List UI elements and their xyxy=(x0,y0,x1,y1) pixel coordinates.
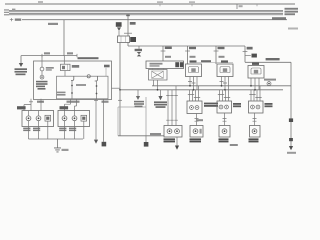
L1 bulb 1 xyxy=(26,116,31,121)
wire rear pins long c xyxy=(175,86,177,126)
wire label rear window feed xyxy=(266,58,280,60)
arrowhead harness ref xyxy=(136,96,140,100)
T1 pins down xyxy=(190,77,197,90)
wire label right BLK/YEL xyxy=(272,17,286,19)
lamp L1 circle xyxy=(40,67,44,71)
L2 bulb 1 dot xyxy=(64,117,66,119)
fuse F1 inner element xyxy=(121,37,126,43)
wire drop to front light left xyxy=(187,46,189,64)
midA pin ticks xyxy=(188,94,200,97)
connector C3 tick xyxy=(236,4,238,9)
arrow label row1 xyxy=(154,101,167,103)
wire dimmer to inner box xyxy=(64,71,66,77)
wire ground bus xyxy=(29,138,84,140)
wire relay out a xyxy=(153,80,155,86)
wire stub to connector xyxy=(145,136,147,142)
contact dot left 2 xyxy=(71,92,73,94)
rear1 label row2 xyxy=(164,141,176,143)
node dot T1 xyxy=(189,85,191,87)
rear light box 2 xyxy=(190,126,203,138)
midB pins up xyxy=(220,90,229,101)
node label left bus 1 xyxy=(4,9,9,10)
wire drop to hazard switch xyxy=(63,20,65,56)
front light L2 title xyxy=(60,106,69,109)
wire relay out b xyxy=(157,80,159,90)
relay pins top xyxy=(153,69,164,70)
inner label center xyxy=(76,84,86,86)
wire rect bottom to rear lights xyxy=(118,135,164,137)
T3 bulb xyxy=(254,70,258,74)
wire ground stem xyxy=(57,139,59,148)
node dot T2b xyxy=(224,89,226,91)
wire into switch xyxy=(41,56,43,68)
node dot T2 xyxy=(221,85,223,87)
pin label b xyxy=(67,101,80,103)
lamp L1 label row2 xyxy=(46,69,52,71)
wire into dimmer xyxy=(63,56,65,65)
arrowhead left feed xyxy=(19,63,23,67)
rear1 bulb 1 dot xyxy=(169,130,171,132)
wire drop to turn signal relay xyxy=(162,46,164,61)
front light L1 title xyxy=(17,106,26,109)
test point dot xyxy=(268,83,270,85)
dimmer inner mark xyxy=(62,66,65,69)
midA pins up xyxy=(190,86,199,101)
node label right bus row 1 xyxy=(285,8,299,10)
wire label at cross 42 xyxy=(44,52,50,54)
L2 label below 1b xyxy=(59,130,66,132)
connector C1 tick xyxy=(159,4,161,6)
harness ref label row3 xyxy=(135,106,143,108)
connector cross left drop xyxy=(185,50,190,52)
L1 label below 1b xyxy=(23,130,30,132)
wire bus H1 xyxy=(152,85,291,87)
contact dot right 1 xyxy=(96,85,98,87)
L2 bulb 1 xyxy=(62,116,67,121)
control unit pin cell 1 xyxy=(175,62,179,67)
rear1 bulb 1 xyxy=(167,129,172,134)
node dot relay-bus xyxy=(157,89,159,91)
arrow to page right xyxy=(289,146,293,150)
midC bulb 2 xyxy=(256,105,260,109)
midB pins down xyxy=(224,113,226,126)
relay box xyxy=(149,70,168,81)
L2 socket inner xyxy=(82,117,85,120)
wire switch pin to arrow xyxy=(95,99,97,140)
control unit label xyxy=(150,63,163,65)
midB down ticks xyxy=(223,119,227,122)
connector cross at 77 xyxy=(76,54,78,57)
switch position label xyxy=(104,65,110,68)
relay coil symbol xyxy=(116,22,122,27)
wire fuse output right xyxy=(128,43,245,47)
hazard label row 1 xyxy=(36,81,48,83)
connector C1 label xyxy=(157,1,163,2)
hazard label row 3 xyxy=(36,86,45,88)
midA down ticks xyxy=(195,119,199,122)
wire label left drop xyxy=(189,47,196,49)
T1 label above xyxy=(190,60,197,62)
node dot T1b xyxy=(193,89,195,91)
link line T1-T2 xyxy=(196,62,233,64)
arrow label row 3 xyxy=(16,74,26,76)
wire hazard feed line xyxy=(21,55,77,57)
wire down right side xyxy=(290,62,292,146)
node label right bus row 3 xyxy=(285,13,296,15)
wire color label on left drop xyxy=(190,56,196,58)
connector C3 label xyxy=(239,5,243,7)
arrow ref inside harness area xyxy=(137,90,139,96)
lamp L1 label xyxy=(46,67,54,69)
L2 bulb 2 xyxy=(72,116,77,121)
midA bulb 2 xyxy=(195,106,199,110)
contact dot left 1 xyxy=(71,85,73,87)
connector tick pin96 xyxy=(94,99,98,101)
wire pins to ground bus xyxy=(29,127,84,140)
connector cross right drop xyxy=(214,50,219,52)
L1 label below 2 xyxy=(33,128,40,130)
mid light box B xyxy=(217,101,232,113)
wire gauge label top xyxy=(38,1,43,3)
wire label right drop xyxy=(218,47,225,49)
wire label at cross 64 xyxy=(67,52,73,54)
node label left bus 3 xyxy=(4,14,9,15)
T2 bulb xyxy=(223,68,227,72)
rear1 label row1 xyxy=(164,138,176,140)
control unit label 2 xyxy=(150,65,160,67)
wire label leader xyxy=(105,68,107,76)
sideR bulb dot xyxy=(254,130,256,132)
L1 socket inner xyxy=(46,117,49,120)
control unit box xyxy=(146,61,184,69)
lamp L2 circle xyxy=(40,75,44,79)
arrow label row3 xyxy=(156,106,166,108)
midB bulb 2 xyxy=(225,105,229,109)
contact pole right xyxy=(96,81,98,99)
wire rear pins long b xyxy=(171,90,173,126)
wire pin 31 xyxy=(30,99,32,111)
L1 bulb 1 dot xyxy=(28,117,30,119)
sideR label row2 xyxy=(249,141,259,143)
mid light box A xyxy=(187,101,202,114)
T1 bulb xyxy=(191,68,195,72)
relay inner rect xyxy=(152,71,164,78)
rear1 bulb 2 xyxy=(175,129,180,134)
rear2 label row2 xyxy=(190,141,202,143)
connector C2 tick xyxy=(191,4,193,6)
condenser label xyxy=(135,49,142,51)
L1 socket box xyxy=(45,115,51,121)
hazard label row 4 xyxy=(38,88,46,90)
control unit pin cell 2 xyxy=(180,62,184,67)
connector tick pin41 xyxy=(39,101,43,103)
wire bus line 3 xyxy=(9,12,283,14)
T2 bulb housing xyxy=(220,67,230,73)
switch box title label xyxy=(78,57,99,59)
connector plug dark box xyxy=(252,54,257,58)
relay contacts X xyxy=(152,72,163,79)
harness ref label row2 xyxy=(134,103,144,105)
node label left bus 2 xyxy=(4,12,9,13)
wire switch out right xyxy=(112,87,121,89)
midC label right row2 xyxy=(265,105,273,107)
midC down ticks xyxy=(253,119,257,122)
wire color label on right drop xyxy=(219,56,225,58)
sideL label row1 xyxy=(219,138,229,140)
midA pins down xyxy=(196,114,198,126)
wire pin 41 xyxy=(40,99,42,111)
midC pin ticks xyxy=(249,94,261,97)
connector block hatched 2 xyxy=(144,142,149,147)
midC pins up xyxy=(251,86,260,101)
inner label row 1 xyxy=(57,92,66,94)
node dot fuse-bus xyxy=(119,89,121,91)
arrowhead relay ref xyxy=(158,96,162,100)
pin label c xyxy=(102,101,109,103)
node dot T3b xyxy=(254,89,256,91)
T3 pins down xyxy=(251,78,259,90)
fuse F1 box xyxy=(118,36,130,43)
connector cross rear drop xyxy=(243,51,248,53)
dash harness outline box xyxy=(118,107,146,136)
arrow feed from page left xyxy=(20,56,22,63)
wire bus line 4 xyxy=(9,14,283,16)
wire between lamps xyxy=(41,71,43,75)
rear2 bulb dot xyxy=(195,130,197,132)
wire top supply bus xyxy=(5,3,295,5)
sideR label row1 xyxy=(249,138,259,140)
wire label rear drop xyxy=(247,47,253,50)
midB label right row2 xyxy=(233,105,241,107)
rear2 bulb xyxy=(193,129,198,134)
T1 pin ticks xyxy=(188,82,196,83)
rear2 label above xyxy=(196,119,203,121)
wire label on relay drop xyxy=(165,47,172,49)
ground G401 label xyxy=(62,149,69,151)
L2 label below 2b xyxy=(69,130,76,132)
dimmer label xyxy=(72,65,79,68)
midC label right row1 xyxy=(265,103,273,105)
harness ref label row1 xyxy=(134,101,144,103)
arrow label right xyxy=(287,152,296,154)
L1 label below 1 xyxy=(23,128,30,130)
connector ticks rear pins xyxy=(166,94,178,96)
connector cross at 42 xyxy=(41,54,43,57)
connector tick on fuse wire xyxy=(118,99,122,101)
contact elbow left xyxy=(71,76,74,80)
sideR bulb xyxy=(252,129,257,134)
condenser stem xyxy=(138,46,140,49)
wire corner to rear feed xyxy=(245,46,291,62)
T3 bulb housing xyxy=(251,68,261,74)
L2 label below 1 xyxy=(59,128,66,130)
T2 pins down xyxy=(222,77,229,90)
sideL label row2 xyxy=(219,141,229,143)
L2 socket box xyxy=(81,115,87,121)
side light box R xyxy=(250,126,261,138)
wire rear pins long a xyxy=(167,90,169,126)
side light box L xyxy=(219,126,230,138)
T3 label above xyxy=(252,63,259,65)
midB pin ticks xyxy=(218,94,230,97)
label on link line xyxy=(201,60,211,62)
wire diode to fuse xyxy=(118,31,120,36)
rear1 arrowhead xyxy=(175,146,179,150)
wire fuse output down xyxy=(119,43,121,137)
front light L1 box xyxy=(22,111,54,127)
L2 bulb stems xyxy=(65,111,84,127)
midA label right row2 xyxy=(204,105,218,107)
L2 label below 2 xyxy=(69,128,76,130)
lamp L2 dot xyxy=(41,76,42,77)
mid light box C xyxy=(249,101,264,113)
condenser symbol xyxy=(137,52,141,56)
wire bus line 2 xyxy=(9,11,283,13)
connector square on right wire xyxy=(289,118,293,122)
hazard label row 2 xyxy=(36,83,48,85)
wire bend to L1 xyxy=(24,105,31,111)
sideL bulb xyxy=(222,129,227,134)
wire color label GRN/BLU xyxy=(48,23,58,25)
arrow label row 2 xyxy=(15,71,28,73)
contact dot right 2 xyxy=(96,93,98,95)
dimmer box xyxy=(61,64,71,70)
arrow label row 1 xyxy=(15,68,28,70)
switch inner box xyxy=(57,76,109,99)
combination switch box xyxy=(34,61,112,100)
midA label right row1 xyxy=(204,103,218,105)
connector block hatched xyxy=(102,142,107,147)
connector cross on relay drop xyxy=(161,50,166,52)
small label G402 xyxy=(230,144,238,146)
connector C5 tick xyxy=(256,4,258,6)
midC bulb 1 xyxy=(251,105,255,109)
T2 pin ticks xyxy=(220,82,228,83)
junction circle on inner box xyxy=(87,75,90,78)
fuse F1 value label xyxy=(130,37,136,42)
rear light box 1 xyxy=(164,126,182,138)
rear2 mark xyxy=(200,129,202,134)
connector square 2 on right wire xyxy=(289,138,293,141)
midA bulb 1 xyxy=(190,106,194,110)
connector C2 label xyxy=(189,1,195,2)
test point label xyxy=(264,79,276,81)
connector dash on fuse drop xyxy=(124,32,132,34)
wire pin 76 xyxy=(75,99,77,111)
arrowhead down mid xyxy=(94,140,98,144)
rear window light box T3 xyxy=(248,66,264,79)
arrow label row2 xyxy=(154,104,167,106)
faint note right margin xyxy=(288,28,298,30)
diode symbol xyxy=(117,27,121,31)
L1 bulb 2 dot xyxy=(38,117,40,119)
L2 bulb 2 dot xyxy=(74,117,76,119)
node label right bus row 2 xyxy=(285,11,299,13)
connector C4 label xyxy=(15,19,21,21)
midB label right row1 xyxy=(233,103,241,105)
T1 bulb housing xyxy=(189,67,199,73)
connector stub xyxy=(245,55,251,57)
wire drop to fuse F1 xyxy=(127,14,129,36)
inner label row 2 xyxy=(57,94,66,96)
wire hot-in-run feed xyxy=(22,19,287,21)
fuse F1 rating label xyxy=(130,22,136,25)
T2 label above xyxy=(221,60,228,62)
ground G401 xyxy=(54,148,61,152)
midC pins down xyxy=(254,113,256,126)
L1 label below 2b xyxy=(33,130,40,132)
wire bus H2 xyxy=(120,89,283,91)
wire switch pin to connector xyxy=(103,99,105,142)
front turn light box T1 xyxy=(186,64,202,77)
L1 bulb 2 xyxy=(36,116,41,121)
wire label above xyxy=(150,133,161,135)
sideL bulb dot xyxy=(224,130,226,132)
connector ticks rear pins low xyxy=(166,119,178,121)
wire drop to front light right xyxy=(215,46,217,64)
node label bus small mark xyxy=(12,9,15,11)
front light L2 box xyxy=(58,111,90,127)
rear1 bulb 2 dot xyxy=(176,130,178,132)
dimmer inner line xyxy=(67,65,69,70)
contact pole left xyxy=(71,81,73,99)
connector tick pin31 xyxy=(29,101,33,103)
rear2 label row1 xyxy=(190,138,202,140)
front turn light box T2 xyxy=(217,64,233,77)
wire bus line 1 xyxy=(9,9,283,11)
contact elbow right xyxy=(95,76,98,81)
connector C4 cross xyxy=(10,18,13,21)
wire color label on relay drop xyxy=(165,56,171,58)
pin label a xyxy=(37,101,44,103)
L1 bulb stems xyxy=(29,111,48,127)
midB bulb 1 xyxy=(219,105,223,109)
node junction at bus xyxy=(126,14,130,16)
wire to arrow down xyxy=(160,90,162,96)
test point circle xyxy=(267,82,271,86)
wire pin 70 xyxy=(65,99,71,111)
rear1 arrow stem xyxy=(176,137,178,146)
node dot T3 xyxy=(250,85,252,87)
